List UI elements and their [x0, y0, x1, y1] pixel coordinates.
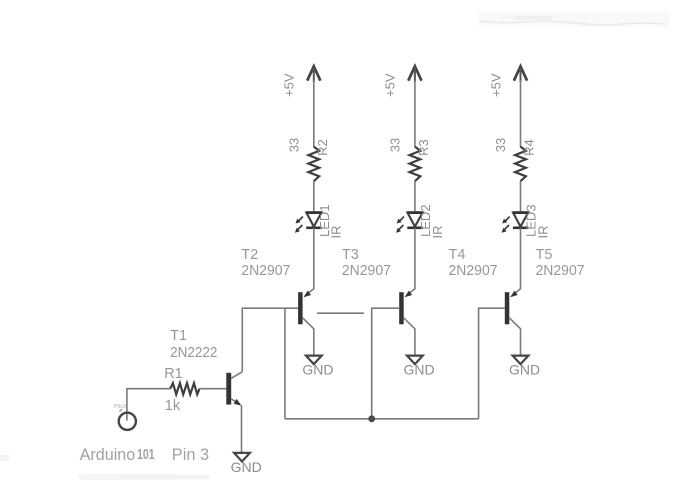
svg-text:T2: T2: [241, 247, 258, 263]
wire collector to ground (branch 1): [313, 328, 315, 355]
svg-text:R1: R1: [164, 366, 183, 382]
wire T1 emitter to ground: [241, 405, 243, 453]
svg-text:33: 33: [493, 138, 508, 152]
svg-text:T5: T5: [536, 247, 553, 263]
transistor T1 NPN 2N2222: [226, 372, 242, 406]
svg-text:2N2907: 2N2907: [449, 263, 498, 279]
svg-text:+5V: +5V: [282, 73, 297, 97]
wire Arduino pin to R1: [127, 389, 170, 421]
svg-text:GND: GND: [302, 362, 333, 378]
transistor T4/T5 PNP 2N2907: [505, 289, 521, 329]
ground symbol (branch 3): [513, 356, 529, 365]
svg-text:2N2907: 2N2907: [342, 263, 391, 279]
svg-text:101: 101: [137, 446, 155, 463]
svg-text:T3: T3: [342, 247, 359, 263]
wire R2 to LED1: [313, 181, 315, 213]
svg-text:33: 33: [286, 138, 301, 152]
wire LED3 to transistor emitter: [520, 228, 522, 289]
svg-text:IR: IR: [329, 226, 344, 239]
transistor T3 PNP 2N2907: [399, 289, 415, 329]
wire R1 to T1 base: [200, 388, 227, 390]
ground symbol (branch 1): [306, 356, 322, 365]
ground symbol (branch 2): [407, 356, 423, 365]
wire +5V to R2: [313, 80, 315, 147]
power +5V arrow (branch 3): [514, 66, 527, 82]
wire +5V to R3: [414, 80, 416, 147]
svg-text:R3: R3: [416, 139, 431, 156]
svg-text:2N2907: 2N2907: [536, 263, 585, 279]
svg-text:1k: 1k: [165, 398, 181, 414]
wire bus riser to T3 base: [372, 308, 400, 419]
junction node on bus: [368, 415, 375, 422]
wire R3 to LED2: [414, 181, 416, 213]
resistor R4 33: [515, 147, 526, 182]
wire base bus horizontal: [285, 418, 479, 420]
LED LED3 (IR emitter diode): [502, 213, 529, 233]
power +5V arrow (branch 2): [408, 66, 421, 82]
svg-text:2N2907: 2N2907: [241, 263, 290, 279]
faint smudge bottom left: [0, 455, 210, 480]
resistor R1 1k: [170, 383, 199, 394]
tick mark near pin circle: [119, 409, 122, 411]
svg-text:GND: GND: [403, 362, 434, 378]
svg-text:+5V: +5V: [383, 73, 398, 97]
wire LED2 to transistor emitter: [414, 228, 416, 289]
svg-text:T1: T1: [170, 328, 187, 344]
svg-text:IR: IR: [535, 226, 550, 239]
resistor R2 33: [308, 147, 319, 182]
wire R4 to LED3: [520, 181, 522, 213]
svg-text:R4: R4: [522, 139, 537, 156]
svg-text:33: 33: [388, 138, 403, 152]
wire T1 collector riser to T2 base: [242, 308, 298, 372]
transistor T2 PNP 2N2907: [298, 289, 314, 329]
svg-text:+5V: +5V: [488, 73, 503, 97]
pin terminal circle (Arduino pin 3): [119, 413, 136, 430]
svg-text:Arduino: Arduino: [80, 445, 136, 464]
wire +5V to R4: [520, 80, 522, 147]
stray wire segment (artifact between branch 1 and 2): [317, 312, 364, 314]
faint erased-area artifact top right: [478, 12, 670, 27]
LED LED1 (IR emitter diode): [295, 213, 322, 233]
wire LED1 to transistor emitter: [313, 228, 315, 289]
svg-text:R2: R2: [315, 139, 330, 156]
ground symbol under T1: [234, 453, 250, 462]
svg-text:GND: GND: [509, 362, 540, 378]
LED LED2 (IR emitter diode): [396, 213, 423, 233]
svg-text:GND: GND: [231, 459, 262, 475]
wire collector to ground (branch 2): [414, 328, 416, 355]
svg-text:PIN3: PIN3: [114, 404, 127, 410]
power +5V arrow (branch 1): [307, 66, 320, 82]
svg-text:T4: T4: [449, 247, 466, 263]
resistor R3 33: [410, 147, 421, 182]
wire T2 base drop to bus: [284, 308, 286, 419]
svg-text:Pin 3: Pin 3: [172, 445, 209, 464]
svg-text:2N2222: 2N2222: [170, 345, 217, 361]
svg-text:IR: IR: [430, 226, 445, 239]
wire collector to ground (branch 3): [520, 328, 522, 355]
wire bus riser to T4 base: [479, 308, 506, 419]
